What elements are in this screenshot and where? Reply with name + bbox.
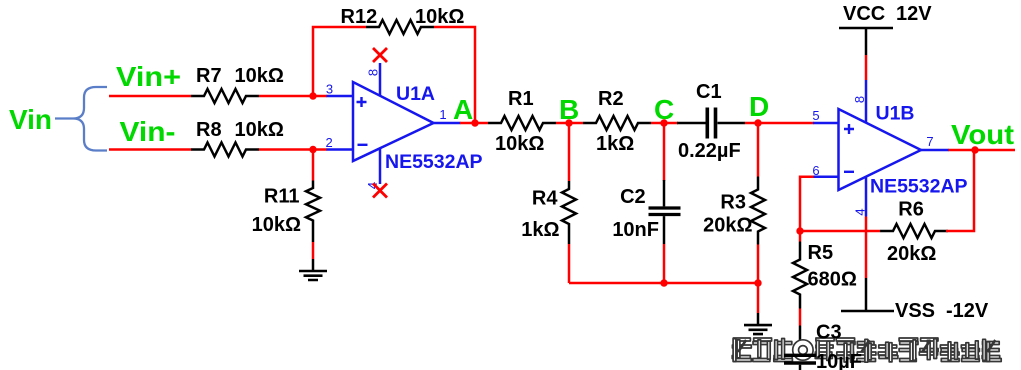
svg-text:-12V: -12V	[946, 300, 989, 322]
wire node C down to C2	[663, 123, 666, 181]
wire pin6 node to R6	[800, 230, 880, 233]
svg-text:Vin+: Vin+	[116, 61, 181, 92]
wire Vin+ to R7	[109, 95, 191, 98]
svg-text:A: A	[453, 94, 473, 125]
svg-text:R5: R5	[808, 242, 834, 264]
junction at R11/pin2	[309, 146, 316, 153]
wire U1B output pin 7	[921, 149, 949, 152]
junction R5 top	[796, 227, 803, 234]
svg-text:NE5532AP: NE5532AP	[870, 176, 968, 198]
svg-text:U1B: U1B	[876, 102, 915, 124]
op-amp U1B	[839, 109, 922, 190]
wire R2 to C1	[651, 122, 678, 125]
pin 8 stub of U1A	[379, 63, 382, 96]
svg-text:R3: R3	[720, 192, 746, 214]
svg-text:R6: R6	[898, 198, 924, 220]
svg-text:2: 2	[326, 135, 333, 150]
wire R12 right leg down to node A	[434, 27, 475, 123]
capacitor C2	[649, 208, 681, 215]
resistor R5	[799, 231, 802, 242]
svg-text:1kΩ: 1kΩ	[521, 219, 559, 241]
wire node D down to R3	[757, 123, 760, 177]
svg-text:C1: C1	[696, 81, 722, 103]
svg-text:12V: 12V	[896, 3, 932, 25]
svg-text:10µF: 10µF	[816, 351, 862, 370]
resistor R6	[880, 224, 948, 238]
svg-text:8: 8	[366, 69, 381, 76]
svg-text:20kΩ: 20kΩ	[887, 243, 936, 265]
op-amp U1A	[353, 82, 434, 161]
resistor R3	[751, 177, 765, 245]
svg-text:R7: R7	[196, 65, 222, 87]
junction at R12/pin3	[309, 92, 316, 99]
watermark text band	[732, 338, 1001, 362]
svg-text:VSS: VSS	[895, 300, 935, 322]
junction R3/rail	[754, 279, 761, 286]
wire R1 to R2	[556, 122, 583, 125]
svg-text:10kΩ: 10kΩ	[252, 214, 301, 236]
capacitor C3	[784, 355, 816, 363]
svg-text:R12: R12	[341, 6, 378, 28]
no-connect X on U1A pin 4	[373, 184, 387, 198]
svg-text:VCC: VCC	[843, 3, 885, 25]
svg-text:D: D	[749, 91, 769, 122]
svg-text:Vin: Vin	[9, 104, 52, 135]
resistor R4	[562, 181, 576, 244]
svg-text:20kΩ: 20kΩ	[703, 214, 752, 236]
pin 4 stub of U1A	[379, 149, 382, 185]
resistor R7	[191, 89, 259, 103]
wire C2 to bottom rail	[663, 216, 666, 244]
svg-text:10nF: 10nF	[612, 219, 659, 241]
wire node B down to R4	[568, 123, 571, 181]
wire C1 to U1B pin5	[745, 122, 814, 125]
ground below R3	[744, 325, 772, 334]
wire R3 to rail and ground	[757, 245, 760, 314]
svg-text:R8: R8	[196, 119, 222, 141]
svg-text:10kΩ: 10kΩ	[235, 65, 284, 87]
wire output to R1	[460, 122, 488, 125]
svg-text:R4: R4	[532, 188, 558, 210]
svg-text:0.22µF: 0.22µF	[678, 140, 741, 162]
brace for Vin input pair	[55, 87, 107, 151]
wire U1A output pin 1	[433, 122, 461, 125]
wire R8 to U1A pin2	[259, 148, 327, 151]
svg-text:7: 7	[926, 134, 933, 149]
junction Vout	[971, 146, 978, 153]
wire bottom rail B-C-D	[569, 282, 758, 285]
resistor R1	[488, 116, 556, 130]
svg-text:Vin-: Vin-	[120, 116, 176, 147]
junction node B	[565, 119, 572, 126]
svg-text:3: 3	[326, 82, 333, 97]
VSS supply rail	[841, 310, 894, 313]
wire R5 to C3	[799, 309, 802, 326]
no-connect X on U1A pin 8	[373, 48, 387, 62]
svg-text:C2: C2	[620, 186, 646, 208]
pin 8 stub of U1B	[865, 80, 868, 123]
svg-text:10kΩ: 10kΩ	[235, 119, 284, 141]
junction node D	[754, 119, 761, 126]
svg-text:10kΩ: 10kΩ	[495, 133, 544, 155]
pin 4 stub of U1B	[865, 177, 868, 217]
svg-text:R2: R2	[598, 88, 624, 110]
svg-text:1: 1	[439, 107, 446, 122]
junction node A	[471, 119, 478, 126]
wire pin2 down to R11	[312, 150, 315, 181]
resistor R2	[583, 116, 651, 130]
resistor R11	[306, 181, 320, 243]
wire R4 to bottom rail	[568, 244, 571, 283]
resistor R8	[191, 143, 259, 157]
wire R12 feedback left leg	[313, 27, 366, 96]
capacitor C1	[677, 122, 706, 125]
junction node C	[660, 119, 667, 126]
svg-text:Vout: Vout	[951, 119, 1014, 150]
wire R11 to ground	[312, 242, 315, 259]
svg-text:C3: C3	[816, 322, 842, 344]
wire R7 to U1A pin3	[259, 95, 327, 98]
svg-text:R1: R1	[508, 88, 534, 110]
wire R6 to output	[946, 150, 974, 231]
ground below R11	[299, 271, 327, 280]
svg-text:1kΩ: 1kΩ	[596, 133, 634, 155]
svg-text:5: 5	[812, 108, 819, 123]
svg-text:680Ω: 680Ω	[808, 268, 857, 290]
svg-text:10kΩ: 10kΩ	[415, 6, 464, 28]
resistor R12	[366, 20, 434, 34]
svg-text:NE5532AP: NE5532AP	[385, 151, 483, 173]
wire U1B pin6	[813, 176, 839, 179]
svg-text:U1A: U1A	[396, 83, 435, 105]
VCC supply rail	[839, 27, 893, 30]
svg-text:R11: R11	[264, 186, 300, 208]
junction C2/rail	[660, 279, 667, 286]
wire Vin- to R8	[109, 148, 191, 151]
